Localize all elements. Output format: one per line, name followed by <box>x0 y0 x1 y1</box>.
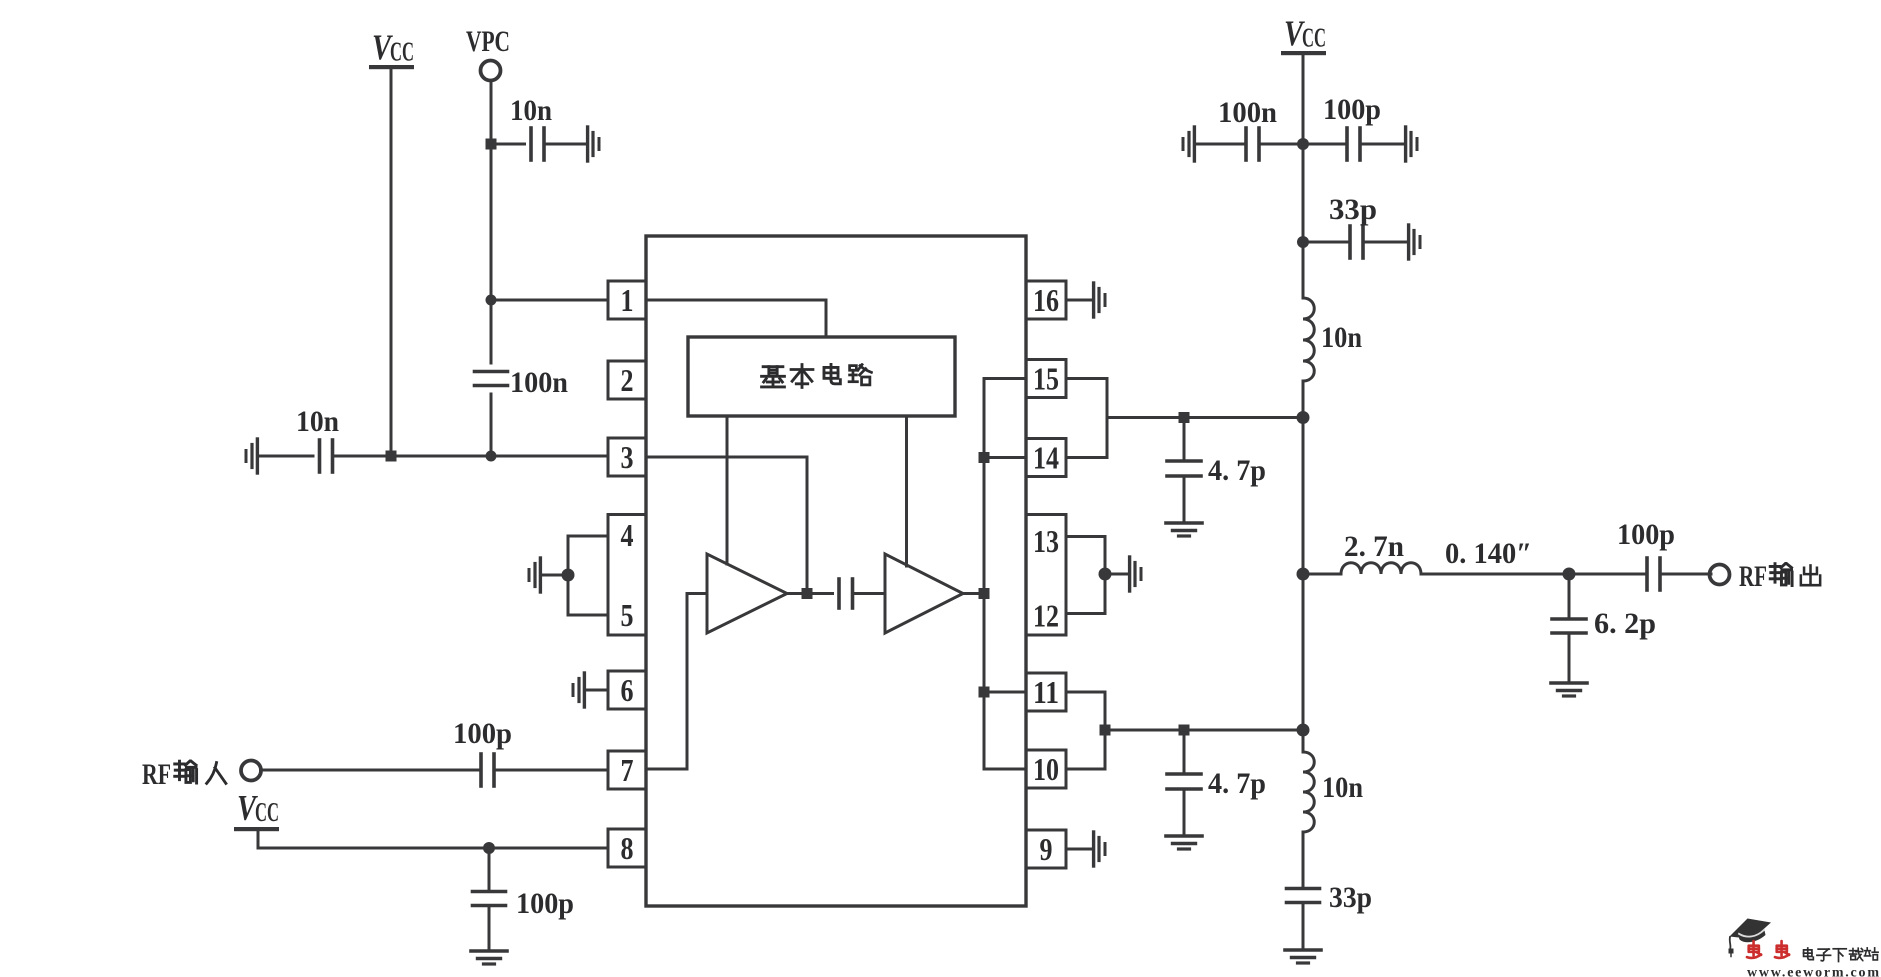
wire C13 to pin 7 <box>494 769 608 772</box>
wire C5 to VCC rail <box>1259 143 1303 146</box>
svg-text:RF: RF <box>142 758 171 791</box>
node RF output line <box>1297 568 1310 581</box>
power VCC (top left) <box>369 27 414 69</box>
wire pin1 into basic-circuit block <box>646 300 826 337</box>
wire bracket to lower tank node <box>1105 729 1303 732</box>
wire VCC rail to C6 <box>1303 143 1347 146</box>
node amp A2 output <box>979 588 990 599</box>
svg-text:RF: RF <box>1739 560 1767 593</box>
ground (left of pin 6) <box>573 673 584 707</box>
wire pin1 to VPC rail <box>491 299 608 302</box>
svg-text:3: 3 <box>621 439 634 475</box>
wire RF line down to lower tank <box>1302 574 1305 752</box>
capacitor C9 33p <box>1350 226 1363 258</box>
capacitor C1 10n (VPC bypass) <box>531 128 544 160</box>
svg-text:2. 7n: 2. 7n <box>1344 530 1404 563</box>
node 33p row <box>1297 236 1309 248</box>
wire L1 to tank node <box>1302 381 1305 574</box>
terminal RF output <box>1710 565 1730 585</box>
ground (right of C1) <box>588 127 599 161</box>
svg-text:2: 2 <box>621 362 634 398</box>
block U1a 基本电路 (basic circuit) <box>688 337 955 416</box>
svg-text:6: 6 <box>621 672 634 708</box>
node pin1/VPC junction <box>486 295 497 306</box>
svg-text:100p: 100p <box>1323 93 1381 126</box>
svg-text:11: 11 <box>1033 674 1059 710</box>
pin 13 / pin 12 shared box <box>1026 515 1066 636</box>
svg-text:33p: 33p <box>1329 881 1372 914</box>
pin 9 <box>1026 830 1066 868</box>
svg-text:0. 140″: 0. 140″ <box>1445 537 1532 570</box>
capacitor C12 100p (output coupling) <box>1647 558 1660 590</box>
svg-text:100p: 100p <box>453 717 512 750</box>
svg-text:33p: 33p <box>1329 193 1377 226</box>
svg-text:4: 4 <box>621 517 634 553</box>
amplifier A1 <box>707 554 787 633</box>
wire VCC rail down to pin3 row <box>390 68 393 456</box>
wire VCC rail (right) <box>1302 54 1305 298</box>
label RF输出 <box>1739 560 1820 593</box>
pin 7 <box>608 751 646 789</box>
svg-text:VPC: VPC <box>466 25 510 58</box>
node VPC rail / pin3 row <box>486 451 497 462</box>
wire bracket to tank node <box>1107 416 1303 419</box>
watermark logo graduation cap <box>1729 919 1772 957</box>
node bracket 4-5 midpoint <box>562 569 575 582</box>
wire ground to C5 <box>1196 143 1246 146</box>
wire block to amp A2 <box>905 416 908 566</box>
node VPC bypass junction <box>486 139 497 150</box>
capacitor C4 (interstage coupling) <box>839 579 853 608</box>
node C14 tap <box>483 842 495 854</box>
ground (right of C9) <box>1409 225 1420 259</box>
wire RF line to L2 <box>1303 573 1341 576</box>
svg-text:14: 14 <box>1033 440 1059 476</box>
wire bus to pin 14 <box>984 456 1026 459</box>
ground (right of pin 9) <box>1094 832 1105 866</box>
bracket pins 4-5 (external, tied) <box>568 536 608 615</box>
node tank lower <box>1297 724 1310 737</box>
wire pin9 to ground <box>1066 848 1092 851</box>
terminal RF input <box>241 761 261 781</box>
svg-text:13: 13 <box>1033 523 1059 559</box>
ground (below C7) <box>1166 523 1202 536</box>
node C7 tap <box>1179 412 1190 423</box>
capacitor C14 100p (pin8 bypass) <box>473 848 575 949</box>
capacitor C6 100p <box>1347 128 1360 160</box>
node C8 tap <box>1179 725 1190 736</box>
svg-text:CC: CC <box>1302 23 1326 53</box>
pin 11 <box>1026 673 1066 711</box>
pin 3 <box>608 438 646 476</box>
wire C1 to ground <box>544 143 586 146</box>
node bracket 11-10 <box>1100 725 1111 736</box>
ground (far left of pin3 row) <box>246 439 257 473</box>
capacitor C3 10n (pin3 bypass) <box>320 440 333 472</box>
capacitor C2 100n (VPC decoupling) <box>475 372 508 386</box>
svg-text:100n: 100n <box>510 366 568 399</box>
svg-text:10n: 10n <box>1321 321 1362 354</box>
wire C3 to pin 3 <box>333 455 609 458</box>
svg-text:4. 7p: 4. 7p <box>1208 454 1266 487</box>
svg-text:8: 8 <box>621 830 634 866</box>
svg-text:6. 2p: 6. 2p <box>1594 607 1656 640</box>
power VCC (bottom left) <box>234 788 279 832</box>
svg-text:9: 9 <box>1040 831 1053 867</box>
IC U1 body <box>646 236 1026 906</box>
wire L2 to output node, microstrip 0.140" <box>1421 573 1647 576</box>
wire C12 to RF out terminal <box>1660 573 1711 576</box>
wire RF in terminal to C13 <box>261 769 482 772</box>
svg-text:12: 12 <box>1033 598 1059 634</box>
power VCC (top right) <box>1281 13 1326 55</box>
svg-text:100n: 100n <box>1218 96 1277 129</box>
pin 6 <box>608 671 646 709</box>
wire C6 to ground <box>1360 143 1404 146</box>
ground (right of pin 16) <box>1094 283 1105 317</box>
svg-text:www.eeworm.com: www.eeworm.com <box>1747 966 1879 977</box>
inductor L2 2.7n (series output) <box>1341 563 1421 574</box>
wire bus to pin 11 <box>984 691 1026 694</box>
node VCC bypass row <box>1297 138 1309 150</box>
pin 2 <box>608 361 646 399</box>
ground (right of pins 13-12) <box>1130 557 1141 591</box>
node bracket 13-12 <box>1099 568 1112 581</box>
ground (left of C5) <box>1183 127 1194 161</box>
pin 4 / pin 5 shared box <box>608 515 646 636</box>
wire VPC down to pin3 row <box>490 81 493 456</box>
svg-text:CC: CC <box>255 797 279 827</box>
pin 15 <box>1026 360 1066 398</box>
svg-text:1: 1 <box>621 282 634 318</box>
svg-text:15: 15 <box>1033 361 1059 397</box>
wire VCC to pin 8 <box>258 830 608 848</box>
inductor L3 10n (lower) <box>1303 752 1314 832</box>
pin 16 <box>1026 281 1066 319</box>
capacitor C5 100n <box>1246 128 1259 160</box>
wire L3 to C10 <box>1302 832 1305 888</box>
bracket pins 15-14 (tied to output tank) <box>1066 379 1107 458</box>
label 基本电路 <box>762 364 872 387</box>
capacitor C13 100p (input coupling) <box>481 754 494 786</box>
svg-text:10n: 10n <box>296 405 339 438</box>
node bus/pin14 <box>979 452 990 463</box>
wire node to ground <box>542 574 568 577</box>
inductor L1 10n (upper choke) <box>1303 298 1314 381</box>
svg-text:100p: 100p <box>1617 518 1675 551</box>
watermark 电子下载站 <box>1804 948 1879 962</box>
wire ground to C3 <box>259 455 313 458</box>
node output matching <box>1563 568 1576 581</box>
capacitor C7 4.7p <box>1167 418 1266 522</box>
pin 8 <box>608 829 646 867</box>
wire pin3 to interstage node <box>646 457 807 594</box>
node VCC rail / pin3 row <box>386 451 397 462</box>
wire junction to C1 <box>491 143 525 146</box>
wire node to C9 <box>1303 241 1350 244</box>
pin 1 <box>608 281 646 319</box>
wire amp A1 output to coupling cap <box>787 592 833 595</box>
capacitor C8 4.7p <box>1167 730 1266 834</box>
wire bus to pin 10 <box>984 768 1026 771</box>
ground (left of pins 4-5) <box>529 558 540 592</box>
wire node to ground <box>1105 573 1128 576</box>
ground (bottom of right rail) <box>1285 950 1321 963</box>
svg-text:100p: 100p <box>516 887 574 920</box>
ground (below C14) <box>471 951 507 964</box>
capacitor C10 33p <box>1287 889 1320 903</box>
wire cap to amp A2 <box>853 592 886 595</box>
svg-text:5: 5 <box>621 597 634 633</box>
ground (right of C6) <box>1406 127 1417 161</box>
wire bus to pin 15 <box>984 377 1026 380</box>
wire pin7 to amp A1 input <box>646 594 707 770</box>
pin 14 <box>1026 439 1066 477</box>
node interstage junction <box>802 588 813 599</box>
wire pin16 to ground <box>1066 299 1092 302</box>
wire amp A2 output to internal bus <box>963 592 984 595</box>
bracket pins 11-10 (tied to lower tank) <box>1066 692 1105 769</box>
svg-text:10n: 10n <box>510 94 552 127</box>
svg-text:4. 7p: 4. 7p <box>1208 767 1266 800</box>
ground (below C11) <box>1551 683 1587 696</box>
svg-text:7: 7 <box>621 752 634 788</box>
watermark 虫虫 <box>1747 941 1789 958</box>
wire block to amp A1 <box>726 416 729 564</box>
node bus/pin11 <box>979 687 990 698</box>
pin 10 <box>1026 750 1066 788</box>
wire pin6 to ground <box>586 689 608 692</box>
bracket pins 13-12 (tied to ground) <box>1066 537 1105 614</box>
svg-text:16: 16 <box>1033 282 1059 318</box>
svg-text:CC: CC <box>390 37 414 67</box>
terminal VPC <box>466 25 510 81</box>
wire C9 to ground <box>1363 241 1407 244</box>
node tank upper <box>1297 411 1310 424</box>
wire C10 to ground <box>1302 903 1305 948</box>
wire internal output bus <box>983 379 986 770</box>
capacitor C11 6.2p (shunt) <box>1552 574 1656 681</box>
svg-text:10n: 10n <box>1322 771 1363 804</box>
amplifier A2 <box>885 554 963 633</box>
label RF输入 <box>142 758 226 791</box>
ground (below C8) <box>1166 836 1202 849</box>
svg-text:10: 10 <box>1033 751 1059 787</box>
